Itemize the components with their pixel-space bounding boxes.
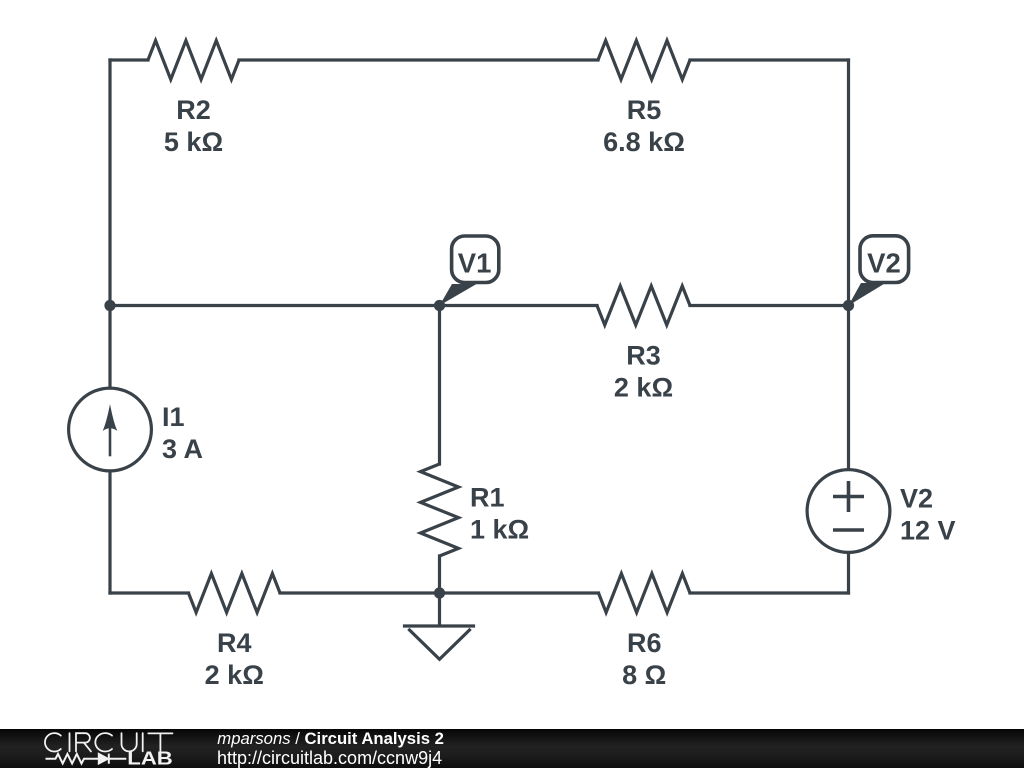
wire middle rail (node V1 to node V2) [110,304,849,307]
wire left rail [108,60,111,593]
svg-text:R6: R6 [627,628,662,658]
label R4 value [205,628,264,690]
label V2 source value [900,484,956,546]
svg-text:2 kΩ: 2 kΩ [205,660,264,690]
label R2 value [164,95,223,157]
resistor R3 [597,286,690,325]
voltage source V2 minus sign [835,528,862,532]
footer logo CIRCUIT wordmark [45,733,173,751]
node V2 dot [843,300,854,311]
svg-text:V2: V2 [900,484,933,514]
resistor R4 [189,574,281,613]
wire top rail [110,58,849,61]
svg-text:12 V: 12 V [900,516,956,546]
voltage source V2 plus sign [835,483,862,510]
label R6 value [622,628,666,690]
voltage source V2 circle [807,470,890,553]
svg-text:mparsons / Circuit Analysis 2: mparsons / Circuit Analysis 2 [217,729,444,748]
resistor R5 [598,41,690,80]
node label V1 box [452,236,499,283]
node label V2 box [860,236,909,283]
node ground junction dot [434,587,445,598]
current source I1 circle [69,388,152,471]
svg-text:R3: R3 [626,340,661,370]
svg-text:R5: R5 [627,95,662,125]
label I1 value [162,402,203,464]
svg-text:R2: R2 [176,95,211,125]
svg-text:3 A: 3 A [162,434,203,464]
resistor R1 [421,464,459,556]
svg-text:V2: V2 [867,247,901,278]
current source I1 arrow [103,404,118,455]
node V1 dot [434,300,445,311]
svg-text:V1: V1 [458,248,492,279]
ground symbol [405,593,474,659]
node label V2 pointer [849,283,886,306]
label R3 value [614,340,673,402]
footer bar [0,729,1024,768]
svg-text:I1: I1 [162,402,185,432]
svg-text:LAB: LAB [127,748,173,768]
wire R1 branch vertical [438,306,441,594]
label R1 value [470,483,529,545]
svg-text:8 Ω: 8 Ω [622,660,666,690]
resistor R2 [148,41,239,80]
label R5 value [603,95,685,157]
wire right rail [847,60,850,593]
wire bottom rail [110,591,849,594]
svg-text:6.8 kΩ: 6.8 kΩ [603,127,685,157]
resistor R6 [599,574,691,613]
svg-text:1 kΩ: 1 kΩ [470,515,529,545]
svg-text:http://circuitlab.com/ccnw9j4: http://circuitlab.com/ccnw9j4 [217,748,442,768]
node label V1 pointer [440,284,477,306]
svg-text:5 kΩ: 5 kΩ [164,127,223,157]
svg-text:2 kΩ: 2 kΩ [614,372,673,402]
node junction left dot [104,300,115,311]
svg-text:R1: R1 [470,483,505,513]
footer logo schematic wire-resistor-diode [46,754,127,764]
svg-text:R4: R4 [217,628,252,658]
